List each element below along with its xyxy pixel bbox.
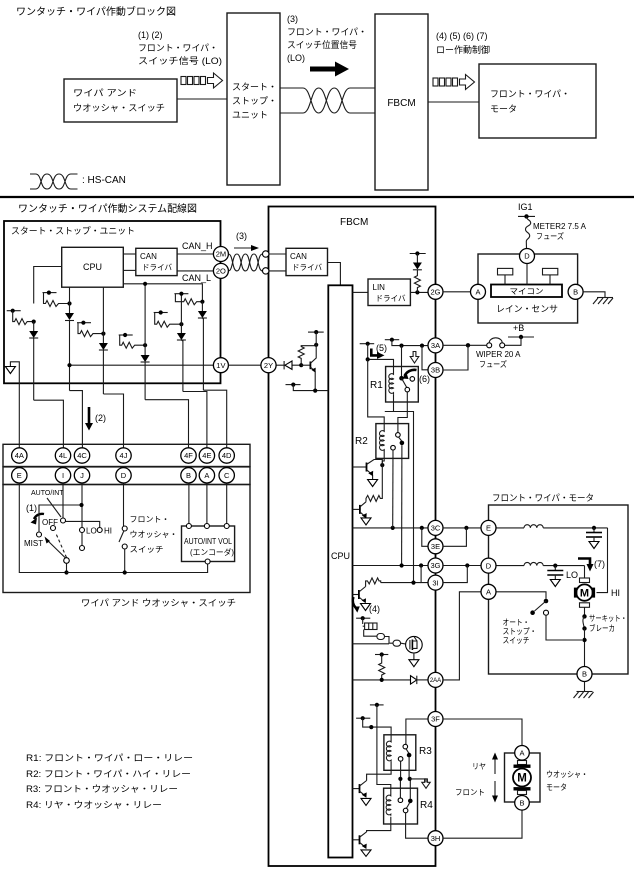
rotation arrow (1) bbox=[34, 514, 44, 519]
wire (5) node to R1 coil bbox=[368, 344, 394, 372]
pullup cell a (4L input) bbox=[7, 309, 39, 401]
svg-text:D: D bbox=[486, 561, 492, 570]
pin E (wiper motor) bbox=[481, 520, 496, 535]
svg-text:AUTO/INT VOL: AUTO/INT VOL bbox=[184, 537, 232, 546]
transistor Q1 (2Y input) bbox=[301, 345, 316, 391]
wire CPU left to cell-a bbox=[34, 267, 62, 304]
rain sensor element right bbox=[543, 268, 558, 284]
wire E pin to common bus bbox=[19, 483, 66, 573]
wire CAN_L to pin 2O bbox=[177, 270, 221, 272]
svg-text:(6): (6) bbox=[419, 374, 430, 384]
pin 2Y bbox=[261, 358, 276, 373]
legend R1-R4 bbox=[26, 753, 193, 810]
svg-text:ウオッシャ・: ウオッシャ・ bbox=[130, 530, 178, 539]
rotation arrow (6) bbox=[405, 370, 417, 376]
wire 1V to 2Y bbox=[228, 364, 268, 366]
svg-text:ブレーカ: ブレーカ bbox=[589, 623, 615, 633]
R4 coil bbox=[386, 794, 391, 816]
pin B (wiper motor) bbox=[577, 667, 592, 682]
wire A pin to encoder bbox=[206, 483, 208, 526]
transistor Q3 bbox=[353, 502, 372, 525]
pullup cell f (4E input) bbox=[154, 294, 186, 392]
svg-text:B: B bbox=[582, 670, 587, 679]
wire B pin to encoder bbox=[188, 483, 190, 526]
svg-text:4F: 4F bbox=[184, 451, 193, 460]
transistor Q4 bbox=[353, 587, 371, 611]
pin 3H bbox=[428, 831, 443, 846]
CPU (FBCM) tall box bbox=[328, 285, 352, 857]
wiper switch pivot bbox=[64, 558, 70, 564]
connector row box lower bbox=[3, 467, 250, 485]
washer switch lower contact bbox=[122, 544, 127, 549]
svg-text:B: B bbox=[519, 799, 524, 808]
pin 2M bbox=[213, 247, 228, 262]
svg-text:3I: 3I bbox=[432, 578, 438, 587]
svg-text:ストップ・: ストップ・ bbox=[503, 627, 537, 636]
wire CAN_H to pin 2M bbox=[177, 253, 221, 255]
twisted pair: start-stop unit to FBCM bbox=[280, 88, 375, 113]
svg-text:リヤ: リヤ bbox=[472, 762, 486, 771]
rain sensor box bbox=[478, 254, 578, 323]
supply stub above 2G bbox=[410, 253, 426, 255]
arrow (2) bbox=[85, 407, 106, 431]
svg-text:(5): (5) bbox=[376, 343, 387, 353]
relay R3 box bbox=[384, 735, 416, 771]
pin J bbox=[74, 468, 89, 483]
label auto-stop switch bbox=[503, 618, 537, 645]
wire 3E jog to E node bbox=[443, 528, 466, 546]
svg-text:MIST: MIST bbox=[24, 539, 43, 548]
contact OFF bbox=[51, 526, 56, 531]
supply stub 2Y cell bbox=[308, 331, 324, 333]
svg-text:J: J bbox=[80, 471, 84, 480]
AUTO/INT VOL encoder box bbox=[182, 526, 235, 562]
R3 contacts bbox=[398, 744, 411, 761]
svg-text:CPU: CPU bbox=[83, 262, 102, 272]
wire D to microcomputer bbox=[526, 264, 528, 285]
wire cell-b to 4C bbox=[70, 391, 83, 448]
svg-text:B: B bbox=[186, 471, 191, 480]
svg-text:フューズ: フューズ bbox=[479, 359, 507, 369]
pin I bbox=[55, 468, 70, 483]
svg-text:METER2 7.5 A: METER2 7.5 A bbox=[533, 222, 587, 231]
pin 4C bbox=[74, 448, 89, 463]
pin 3F bbox=[428, 712, 443, 727]
label front washer switch bbox=[130, 515, 178, 554]
diode at 2G pullup bbox=[413, 254, 422, 270]
svg-text:3H: 3H bbox=[431, 834, 441, 843]
washer motor M bbox=[513, 761, 531, 795]
svg-text:モータ: モータ bbox=[490, 104, 517, 114]
buffer gates to MOSFET bbox=[353, 630, 406, 647]
svg-text:LO: LO bbox=[86, 527, 97, 536]
wire cell-f to 4E bbox=[183, 392, 207, 448]
wire R4 contact to 3H bbox=[406, 813, 428, 838]
svg-text:A: A bbox=[486, 588, 491, 597]
wire CPU to LIN driver bbox=[353, 291, 369, 293]
fuse METER2 7.5A bbox=[526, 216, 587, 248]
R2 contacts bbox=[391, 433, 405, 450]
R3 coil bbox=[386, 740, 391, 762]
label washer motor bbox=[546, 770, 588, 792]
twisted pair 2M/2O to FBCM bbox=[228, 254, 262, 271]
supply stub R3 lower bbox=[356, 717, 370, 719]
pin 3E bbox=[428, 539, 443, 554]
wire 1V node bbox=[70, 364, 214, 366]
svg-text:OFF: OFF bbox=[42, 518, 58, 527]
svg-text:(LO): (LO) bbox=[287, 53, 305, 63]
chassis ground (wiper motor B) bbox=[574, 682, 594, 699]
svg-text:(3): (3) bbox=[287, 14, 298, 24]
svg-text:R3: R3 bbox=[419, 746, 432, 757]
label AUTO/INT with pointer bbox=[31, 490, 64, 517]
wire cell-e to 4D bbox=[203, 390, 226, 448]
wire 3B jog inside FBCM bbox=[422, 346, 428, 370]
pin 4E bbox=[199, 448, 214, 463]
svg-text:フロント・: フロント・ bbox=[130, 515, 170, 524]
svg-text:(4) (5) (6) (7): (4) (5) (6) (7) bbox=[436, 31, 488, 41]
svg-text:2Y: 2Y bbox=[264, 361, 273, 370]
svg-text:レイン・センサ: レイン・センサ bbox=[496, 304, 558, 314]
choke coil E line bbox=[496, 525, 608, 528]
label (3) front wiper switch position signal (LO) bbox=[287, 14, 367, 63]
svg-text:CAN: CAN bbox=[290, 252, 307, 261]
transistor Q5 (R3 driver) bbox=[353, 781, 372, 806]
resistor 2AA cell bbox=[379, 655, 385, 680]
svg-text:FBCM: FBCM bbox=[340, 217, 368, 228]
svg-text:A: A bbox=[519, 749, 524, 758]
wire: switch to start-stop unit bbox=[177, 98, 227, 100]
capacitor D line bbox=[547, 564, 563, 587]
svg-text:E: E bbox=[486, 524, 491, 533]
svg-text:2AA: 2AA bbox=[430, 678, 441, 684]
pullup cell c (4J input) bbox=[77, 287, 108, 394]
svg-text:スイッチ: スイッチ bbox=[503, 636, 530, 645]
svg-text:3E: 3E bbox=[431, 542, 440, 551]
wire 3G to D bbox=[443, 565, 481, 567]
transistor Q6 (R4 driver) bbox=[353, 832, 372, 857]
R4 contacts bbox=[398, 798, 413, 813]
wire R3 pole to R4 pole bbox=[409, 757, 410, 799]
choke coil D line bbox=[496, 562, 585, 565]
wire cell-c to 4J bbox=[103, 394, 123, 448]
pin 3I bbox=[428, 575, 443, 590]
relay R2 box bbox=[376, 424, 409, 459]
svg-text:ウオッシャ・スイッチ: ウオッシャ・スイッチ bbox=[73, 103, 165, 113]
solid black arrow (3) bbox=[310, 62, 349, 77]
wire 3A node bbox=[392, 340, 428, 346]
svg-text:ストップ・: ストップ・ bbox=[232, 96, 277, 106]
pin C bbox=[219, 468, 234, 483]
pin A (washer motor) bbox=[515, 746, 530, 761]
svg-text:ロー作動制御: ロー作動制御 bbox=[436, 44, 490, 55]
svg-text:D: D bbox=[524, 252, 530, 261]
label (3) and arrow bbox=[234, 231, 259, 251]
svg-text:R3: フロント・ウオッシャ・リレー: R3: フロント・ウオッシャ・リレー bbox=[26, 784, 178, 794]
svg-text:CPU: CPU bbox=[331, 551, 350, 561]
washer switch upper contact bbox=[122, 526, 127, 531]
svg-text:フロント・ワイパ・モータ: フロント・ワイパ・モータ bbox=[492, 493, 594, 503]
svg-text:A: A bbox=[204, 471, 209, 480]
wire CPU to 2AA with diode bbox=[353, 676, 429, 684]
svg-text:(1) (2): (1) (2) bbox=[138, 30, 163, 40]
capacitor E line bbox=[586, 526, 602, 549]
wire CAN driver to CPU bbox=[328, 263, 341, 286]
svg-text:フューズ: フューズ bbox=[536, 231, 564, 241]
front wiper motor box bbox=[489, 505, 629, 674]
pin CAN_L small bbox=[263, 268, 269, 274]
svg-text:(1): (1) bbox=[26, 503, 37, 513]
MOSFET Q7 bbox=[406, 636, 423, 653]
svg-text:C: C bbox=[224, 471, 230, 480]
svg-text:3G: 3G bbox=[430, 561, 440, 570]
pullup cell d (4F input) bbox=[119, 282, 150, 400]
wiper switch wire MIST branch bbox=[39, 505, 82, 532]
svg-text:3F: 3F bbox=[431, 715, 440, 724]
power +B terminal bbox=[508, 323, 534, 339]
svg-text:4A: 4A bbox=[15, 451, 24, 460]
hollow motion arrow above R1 contact bbox=[410, 352, 419, 364]
circuit breaker bbox=[582, 607, 627, 666]
wiper switch lever dashed to OFF bbox=[56, 533, 67, 558]
unit: start-stop unit box bbox=[4, 221, 221, 383]
supply stub low 2Y cell bbox=[286, 384, 301, 386]
svg-text:ワイパ アンド ウオッシャ・スイッチ: ワイパ アンド ウオッシャ・スイッチ bbox=[81, 598, 236, 608]
wire (5) node to R2 coil bbox=[368, 359, 385, 429]
contact AUTO/INT bbox=[61, 518, 66, 523]
wire 3I jog to D node bbox=[443, 566, 467, 583]
svg-text:R2: R2 bbox=[355, 436, 368, 447]
svg-text:(2): (2) bbox=[95, 413, 106, 423]
ground (start-stop unit) bbox=[5, 362, 19, 448]
svg-text:WIPER 20 A: WIPER 20 A bbox=[476, 350, 521, 359]
rain sensor element left bbox=[498, 268, 513, 284]
svg-text:4C: 4C bbox=[77, 451, 87, 460]
wire R2 contact to 3C node bbox=[392, 450, 394, 528]
svg-text:LO: LO bbox=[566, 570, 578, 580]
encoder terminal A bbox=[204, 524, 209, 529]
wire D pin to washer switch bbox=[123, 483, 125, 526]
svg-text:B: B bbox=[573, 288, 578, 297]
washer motor box bbox=[505, 753, 541, 802]
wire 3A to R1 pole bbox=[401, 346, 403, 379]
wire washer switch to bus bbox=[124, 549, 126, 573]
pin B (washer motor) bbox=[515, 796, 530, 811]
svg-text:スタート・: スタート・ bbox=[232, 82, 277, 92]
wire A to auto-stop switch bbox=[496, 592, 546, 599]
encoder terminal bottom bbox=[205, 559, 210, 564]
pin 4D bbox=[219, 448, 234, 463]
wire 3H to washer motor B bbox=[443, 810, 522, 838]
ground MOSFET bbox=[409, 653, 419, 667]
R1 armature and contacts bbox=[399, 376, 414, 392]
diode to 2Y bbox=[276, 361, 301, 369]
wire CPU to CAN driver lower bbox=[123, 269, 136, 271]
svg-text:HI: HI bbox=[104, 527, 112, 536]
wire R3 contact to R4 contact bbox=[399, 761, 401, 798]
wire cell-d to 4F bbox=[145, 400, 188, 448]
wire R4 coil bottom to Q6 bbox=[367, 817, 391, 832]
resistor at 2G pullup bbox=[414, 270, 420, 293]
pin 4J bbox=[116, 448, 131, 463]
svg-text:R4: R4 bbox=[420, 800, 433, 811]
svg-text:フロント・ワイパ・: フロント・ワイパ・ bbox=[490, 89, 570, 99]
pullup cell b (4C/1V input) bbox=[43, 287, 75, 390]
svg-text:LIN: LIN bbox=[373, 283, 386, 292]
svg-text:R1: R1 bbox=[370, 380, 383, 391]
arrow (5) bbox=[371, 343, 387, 359]
svg-text:R4: リヤ・ウオッシャ・リレー: R4: リヤ・ウオッシャ・リレー bbox=[26, 800, 162, 810]
wire J pin down bbox=[81, 483, 83, 527]
svg-text:HI: HI bbox=[611, 588, 620, 598]
pin 4F bbox=[181, 448, 196, 463]
contact HI bbox=[97, 528, 102, 533]
svg-text:CAN_H: CAN_H bbox=[182, 241, 213, 251]
wiper and washer switch box bbox=[3, 485, 250, 593]
block: wiper and washer switch bbox=[64, 79, 177, 122]
wire 3E jog bbox=[422, 528, 428, 546]
svg-text:3C: 3C bbox=[431, 524, 441, 533]
svg-text:フロント・ワイパ・: フロント・ワイパ・ bbox=[287, 27, 367, 37]
resistor Q3 collector to R2 coil bbox=[366, 465, 382, 502]
label rear arrow bbox=[472, 753, 498, 775]
connector row box upper bbox=[3, 444, 250, 466]
relay R1 box bbox=[386, 367, 419, 403]
pin B bbox=[181, 468, 196, 483]
pin B (rain sensor) bbox=[568, 284, 583, 299]
wire 2G to A bbox=[443, 291, 478, 293]
separator line bbox=[0, 196, 634, 198]
svg-text:(3): (3) bbox=[236, 231, 247, 241]
wire 3G node bbox=[353, 565, 429, 567]
power IG1 terminal bbox=[518, 202, 535, 219]
svg-text:D: D bbox=[121, 471, 127, 480]
wire 3C to E bbox=[443, 527, 481, 529]
svg-text:IG1: IG1 bbox=[518, 202, 533, 212]
svg-text:+B: +B bbox=[513, 323, 524, 333]
svg-text:E: E bbox=[17, 471, 22, 480]
svg-text:(エンコーダ): (エンコーダ) bbox=[190, 547, 234, 557]
supply stub 2AA cell bbox=[375, 654, 388, 656]
wire B to ground bbox=[583, 292, 605, 298]
svg-text:M: M bbox=[580, 588, 589, 600]
pin D bbox=[116, 468, 131, 483]
pin D (rain sensor) bbox=[520, 249, 535, 264]
pin A (wiper motor) bbox=[481, 584, 496, 599]
contact below LO bbox=[80, 546, 85, 551]
svg-text:R1: フロント・ワイパ・ロー・リレー: R1: フロント・ワイパ・ロー・リレー bbox=[26, 753, 193, 763]
svg-text:4L: 4L bbox=[59, 451, 67, 460]
svg-text:3B: 3B bbox=[431, 366, 440, 375]
hollow motion arrow R4 bbox=[410, 779, 426, 783]
svg-text:1V: 1V bbox=[216, 361, 225, 370]
wire 3F to R3 contact bbox=[406, 719, 428, 745]
wire LO to lower contact bbox=[81, 533, 83, 546]
wire CPU to cell-e bus bbox=[123, 284, 202, 302]
wire 3F to washer motor A bbox=[443, 719, 522, 746]
svg-text:I: I bbox=[62, 471, 64, 480]
encoder terminal B bbox=[186, 524, 191, 529]
pin 2O bbox=[213, 263, 228, 278]
legend: HS-CAN twisted pair symbol bbox=[30, 174, 78, 189]
wire CPU to CAN driver bbox=[123, 253, 136, 255]
svg-text:FBCM: FBCM bbox=[387, 98, 415, 109]
wire A to 2AA bbox=[443, 592, 481, 680]
svg-text:2O: 2O bbox=[216, 267, 226, 276]
svg-text:A: A bbox=[475, 288, 480, 297]
label (4)(5)(6)(7) low drive control bbox=[436, 31, 490, 55]
supply stub 3A node bbox=[385, 339, 399, 341]
pin 3B bbox=[428, 363, 443, 378]
wire cell-a to 4L bbox=[34, 400, 64, 448]
svg-text:スイッチ信号 (LO): スイッチ信号 (LO) bbox=[138, 55, 222, 66]
label front arrow bbox=[455, 781, 498, 803]
wire R1 contact to R2 contact bbox=[398, 392, 407, 433]
wire 3C node bbox=[353, 527, 429, 529]
pullup cell e (4D input) bbox=[174, 292, 207, 391]
dashed-square signal arrow 1 bbox=[181, 73, 223, 88]
svg-text:スイッチ: スイッチ bbox=[130, 545, 164, 554]
encoder terminal C bbox=[224, 524, 229, 529]
svg-text:3A: 3A bbox=[431, 341, 440, 350]
wiper switch lever solid to MIST bbox=[46, 539, 66, 558]
pin A bbox=[199, 468, 214, 483]
wire Q1 emitter to CPU bbox=[293, 385, 328, 391]
CAN driver (FBCM) bbox=[286, 248, 328, 275]
svg-text:(4): (4) bbox=[369, 604, 380, 614]
wire LIN driver to 2G bbox=[410, 291, 428, 293]
svg-text:フロント・ワイパ・: フロント・ワイパ・ bbox=[138, 43, 218, 53]
svg-text:ワンタッチ・ワイパ作動ブロック図: ワンタッチ・ワイパ作動ブロック図 bbox=[16, 5, 176, 18]
resistor Q4 to 3I node bbox=[366, 578, 381, 587]
svg-text:フロント: フロント bbox=[455, 788, 485, 797]
pin E bbox=[12, 468, 27, 483]
arrow (7) bbox=[578, 559, 605, 572]
CAN driver (start-stop unit) bbox=[136, 248, 177, 275]
pin D (wiper motor) bbox=[481, 558, 496, 573]
wire 3I jog bbox=[421, 566, 428, 583]
svg-text:(7): (7) bbox=[594, 559, 605, 569]
wire 3B to fuse node bbox=[443, 345, 468, 370]
wire I pin to AUTO/INT contact bbox=[62, 483, 64, 518]
auto-stop switch bbox=[530, 599, 582, 640]
wiper motor M bbox=[574, 578, 595, 607]
LIN driver bbox=[368, 279, 410, 306]
svg-text:4E: 4E bbox=[202, 451, 211, 460]
pin 3A bbox=[428, 338, 443, 353]
pin 2G bbox=[428, 284, 443, 299]
supply stub oscillator cell bbox=[356, 617, 370, 619]
pin 4L bbox=[55, 448, 70, 463]
rain sensor microcomputer bbox=[491, 285, 562, 298]
pin CAN_H small bbox=[263, 251, 269, 257]
svg-text:ドライバ: ドライバ bbox=[292, 263, 322, 272]
wire FBCM pins to CAN driver bbox=[269, 253, 287, 255]
svg-text:ドライバ: ドライバ bbox=[142, 263, 172, 272]
pin 4A bbox=[12, 448, 27, 463]
wire D line to LO terminal bbox=[584, 566, 586, 578]
fuse WIPER 20A bbox=[443, 337, 521, 369]
pin 2AA bbox=[428, 672, 443, 687]
wire R3 coil bottom to Q5 bbox=[367, 762, 392, 781]
svg-text:R2: フロント・ワイパ・ハイ・リレー: R2: フロント・ワイパ・ハイ・リレー bbox=[26, 769, 191, 779]
svg-text:CAN_L: CAN_L bbox=[182, 273, 211, 283]
wire stub to R4 coil bbox=[377, 705, 391, 794]
wire stub to R3 coil bbox=[363, 718, 391, 739]
svg-text:マイコン: マイコン bbox=[510, 287, 544, 296]
wire R2 coil bottom node bbox=[382, 451, 384, 465]
CPU (start-stop unit) bbox=[62, 247, 124, 287]
